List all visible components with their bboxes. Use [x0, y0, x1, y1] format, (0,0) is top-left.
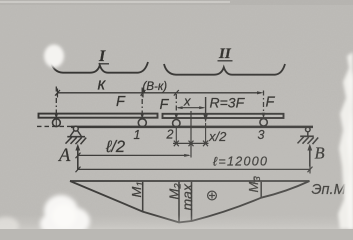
main beam — [71, 126, 313, 129]
plus-in-circle sign — [208, 191, 217, 200]
tick on baseline — [253, 177, 255, 183]
wheel 3 — [260, 119, 267, 126]
white blob bottom-left — [40, 195, 90, 235]
x dimension line — [176, 106, 205, 109]
l=12000 dimension line — [76, 166, 313, 174]
dimension chain line (к / (В-к) / cart II) — [55, 89, 264, 98]
cart I beam — [39, 114, 158, 118]
light patch bottom-left corner — [0, 217, 19, 235]
l/2 dimension line — [76, 153, 191, 159]
resultant R=3F arrow — [203, 97, 208, 143]
support A (pin) — [66, 126, 87, 144]
moment diagram outline — [70, 181, 310, 222]
wheel 2 — [173, 120, 180, 127]
brace I — [51, 62, 148, 73]
wheel 1 — [138, 119, 146, 127]
light strip bottom edge — [0, 215, 353, 229]
cart II beam — [163, 114, 284, 118]
brace II — [164, 64, 285, 75]
force line F1 (left wheel) — [55, 87, 59, 127]
force line F4 (wheel 3) + label F — [262, 91, 266, 119]
label I — [98, 48, 109, 65]
support B (roller) — [298, 127, 319, 144]
label II — [218, 46, 233, 62]
white band right edge — [338, 52, 353, 229]
ordinate M3 — [260, 182, 262, 198]
ordinate M2 — [178, 182, 180, 223]
x/2 dimension line — [173, 141, 209, 147]
ordinate max (midspan) — [191, 182, 193, 221]
reaction arrow A — [75, 144, 80, 170]
force line F3 (wheel 2) + label F — [175, 94, 179, 143]
reaction arrow B — [307, 144, 312, 167]
moment diagram baseline — [70, 180, 310, 182]
force line F2 (wheel 1) + label F — [140, 88, 144, 120]
midspan section line — [190, 111, 192, 158]
white blob top-left — [44, 45, 64, 68]
wheel 0 — [53, 119, 61, 127]
dashed beam level line (left of support A) — [37, 125, 71, 127]
ordinate M1 — [142, 182, 144, 212]
